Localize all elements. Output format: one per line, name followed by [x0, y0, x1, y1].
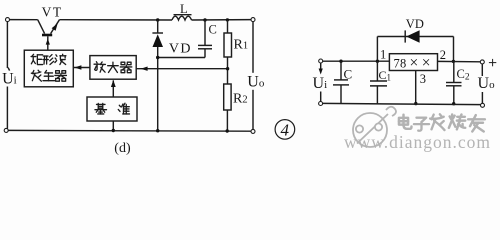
circled figure number 4 [275, 120, 295, 140]
node C2-rail [452, 102, 455, 105]
svg-text:VD: VD [169, 41, 192, 56]
left rail lower segment [6, 87, 8, 129]
svg-text:C: C [209, 23, 217, 37]
wire top-left to transistor [10, 19, 38, 21]
svg-text:Ui: Ui [2, 71, 17, 88]
resistor R1 [224, 20, 232, 84]
resistor R2 [224, 84, 231, 131]
output terminal bottom-right [251, 129, 255, 133]
node diode-rail [156, 129, 159, 132]
output terminal top-right [251, 18, 255, 22]
diode VD [152, 20, 163, 131]
svg-text:VT: VT [42, 5, 63, 20]
regulator 78xx box [389, 54, 437, 71]
svg-text:C2: C2 [457, 67, 470, 83]
plus sign [489, 59, 496, 66]
wire inductor to output terminal [192, 19, 252, 21]
input polarity arrow [320, 63, 322, 73]
node C bottom / diode line [156, 56, 159, 59]
node R1-R2 junction [226, 67, 229, 70]
wire generator-amplifier with arrow [74, 67, 90, 69]
svg-text:Uo: Uo [478, 75, 496, 92]
svg-text:R2: R2 [233, 91, 248, 106]
watermark logo [353, 107, 396, 147]
capacitor C [333, 61, 349, 103]
node diode right / pin2 [452, 60, 455, 63]
output right lead lower [481, 92, 483, 104]
polarity tick [8, 68, 10, 71]
right rail with Uo gap [252, 22, 254, 73]
input terminal top [319, 59, 323, 63]
svg-text:www.diangon.com: www.diangon.com [344, 132, 490, 152]
svg-text:2: 2 [440, 48, 446, 62]
left rail upper segment [6, 22, 8, 68]
pin 3 wire [415, 71, 417, 104]
svg-text:××: ×× [410, 55, 434, 72]
transistor VT [38, 20, 60, 51]
feedback wire to amplifier [136, 68, 227, 70]
node C top [203, 18, 206, 21]
svg-text:Uo: Uo [247, 74, 265, 91]
wire reference to ground rail [112, 121, 114, 130]
svg-text:VD: VD [406, 17, 424, 31]
output terminal bottom [481, 103, 485, 107]
wire reference to amplifier with arrow [112, 80, 114, 97]
block: rectangular wave generator 矩形波发生器 [24, 50, 73, 87]
node reference-rail [112, 129, 115, 132]
block: amplifier 放大器 [90, 56, 136, 80]
svg-text:L: L [180, 2, 188, 16]
protection diode VD bridge [377, 30, 453, 61]
output terminal top [480, 60, 484, 64]
input top wire [323, 60, 390, 62]
node cap C1 / diode [376, 60, 379, 63]
inductor L [172, 16, 192, 20]
wire transistor to inductor [60, 19, 173, 21]
node at diode top [156, 18, 159, 21]
node R2-rail [226, 129, 229, 132]
svg-text:R1: R1 [234, 37, 249, 52]
node R1 top [226, 18, 229, 21]
svg-text:3: 3 [420, 72, 426, 86]
bottom rail [323, 103, 481, 104]
bottom rail [8, 129, 251, 132]
output right lead upper [481, 64, 483, 76]
node cap C [339, 60, 342, 63]
inductor core line [174, 14, 192, 16]
svg-text:Ui: Ui [313, 75, 328, 92]
watermark text 电子发烧友 [399, 114, 485, 131]
svg-text:1: 1 [380, 48, 386, 62]
capacitor C2 [446, 62, 462, 104]
block: reference 基准 [87, 97, 137, 121]
input terminal top-left [6, 18, 10, 22]
input terminal bottom-left [4, 128, 8, 132]
capacitor C [158, 20, 212, 58]
svg-text:C: C [344, 66, 353, 81]
input lower lead [320, 92, 322, 102]
svg-text:4: 4 [281, 121, 290, 140]
capacitor C1 [370, 61, 387, 103]
node pin3-rail [414, 102, 417, 105]
svg-text:(d): (d) [114, 141, 131, 156]
input terminal bottom [319, 102, 323, 106]
arrowhead into amplifier [141, 67, 148, 71]
pin 2 output wire [438, 60, 481, 62]
svg-text:78: 78 [394, 56, 407, 70]
